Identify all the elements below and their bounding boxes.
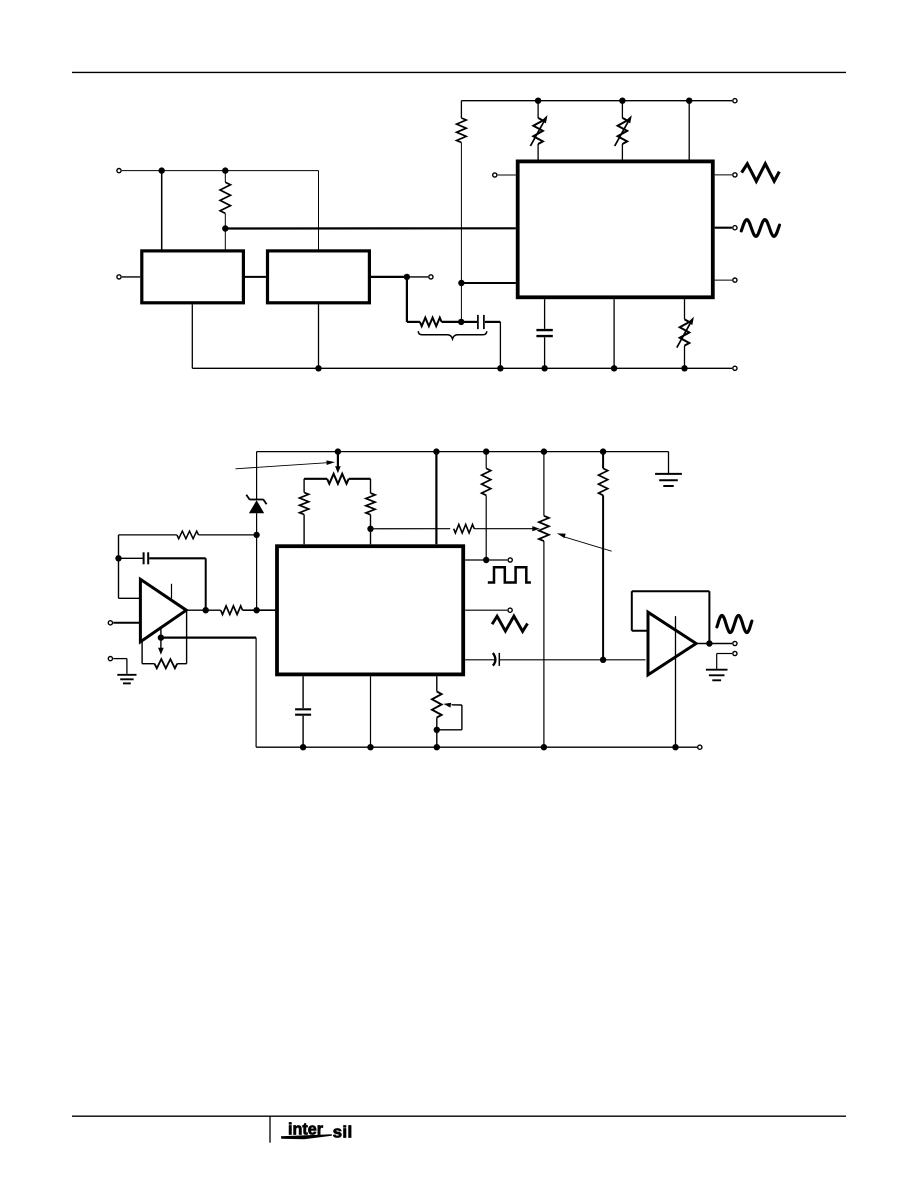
wire rail to D1: [256, 452, 258, 499]
capacitor C4 (coupling): [493, 653, 496, 666]
op IC1 ICL8038 waveform generator: [518, 161, 713, 297]
node J1: [159, 167, 165, 173]
wire P1 right lead: [349, 478, 371, 480]
footer tick: [269, 1116, 271, 1143]
variable resistor VR2: [618, 118, 628, 144]
ground (A2 output): [706, 669, 728, 671]
node J6: [458, 280, 464, 286]
wire term to IC1: [498, 174, 516, 176]
node rail-VR1: [535, 98, 541, 104]
op IC2 ICL8038: [277, 546, 463, 674]
node rail-pin11: [611, 365, 617, 371]
resistor R1: [220, 182, 230, 213]
pot P3 body: [155, 659, 178, 668]
wire J6 down to J5: [460, 283, 462, 322]
wire rail to IC1 pin 6: [688, 101, 690, 160]
square waveform symbol: [488, 567, 531, 582]
node J11: [203, 607, 209, 613]
wire VR3 to rail: [684, 346, 686, 369]
wire R7 to J8: [199, 534, 257, 536]
wire A1 output: [186, 609, 220, 611]
terminal triangle out: [733, 173, 737, 177]
node J4: [404, 274, 410, 280]
wire to R2: [407, 321, 420, 323]
variable resistor VR4 (rheostat): [432, 692, 442, 718]
intersil logo: [281, 1121, 353, 1142]
top rail circuit 2: [257, 451, 669, 453]
wire J3 to block A top: [224, 229, 226, 250]
wire J6 to IC1 pin: [461, 282, 515, 284]
node rail-pin: [686, 98, 692, 104]
terminal IN1: [117, 169, 121, 173]
node rail2-pin: [433, 448, 439, 454]
wire block A to block B: [245, 276, 266, 278]
wire P1 left lead: [304, 478, 327, 480]
wire C3 to corner: [149, 557, 206, 559]
pot P2 wiper arrowhead: [532, 526, 540, 531]
node J9: [253, 607, 259, 613]
wire P2 to bottom rail 2: [543, 541, 545, 747]
wire C1 to corner: [485, 321, 501, 323]
wire C2 to bottom rail: [544, 337, 546, 368]
bottom rail circuit 1: [192, 367, 732, 369]
wire down to block B top: [318, 171, 320, 250]
wire R3 down to J6: [460, 143, 462, 284]
triangle waveform symbol 2: [492, 616, 527, 631]
terminal square out 2: [508, 558, 512, 562]
terminal gnd out: [733, 651, 737, 655]
wire P3 left lead: [142, 663, 154, 665]
op-amp A1: [140, 579, 186, 642]
wire C3 down to output node: [205, 558, 207, 610]
node rail2-P2: [541, 448, 547, 454]
node rail-VR2: [619, 98, 625, 104]
terminal V-: [733, 366, 737, 370]
node J2: [222, 167, 228, 173]
pot P3 wiper arrowhead: [158, 648, 164, 655]
ground (A1): [117, 674, 136, 676]
node rail-blockB: [315, 365, 321, 371]
ground (top right): [668, 452, 670, 473]
annotation arrow (points at pot P1 wiper): [236, 463, 328, 469]
wire R1 to J3: [224, 213, 226, 228]
wire IC2 triangle out: [465, 609, 507, 611]
node J10: [115, 555, 121, 561]
wire IC2 square out: [465, 559, 483, 561]
sine waveform symbol 2: [717, 615, 752, 632]
wire down to bottom rail: [499, 322, 501, 368]
wire IC1 triangle out: [715, 174, 732, 176]
wire P1 to R4: [303, 479, 305, 493]
wire IC1 square out: [715, 279, 732, 281]
wire to R1: [224, 171, 226, 183]
node rail2-VR4: [434, 744, 440, 750]
node rail2-pin: [367, 744, 373, 750]
svg-text:sil: sil: [333, 1122, 353, 1141]
wire IC1 pin10 to C2: [544, 299, 546, 329]
wire J4 down: [406, 277, 408, 322]
wire to demod out terminal: [410, 276, 428, 278]
wire rail to IC2 top pin (thick): [435, 452, 437, 545]
wire J8 down to J9: [256, 535, 258, 610]
node rail-C2: [541, 365, 547, 371]
variable resistor VR3: [680, 319, 690, 345]
node J15: [706, 640, 712, 646]
terminal gnd ref: [108, 657, 112, 661]
wire IC2 pin to rail: [370, 676, 372, 747]
wire R10 to J14: [602, 495, 604, 660]
wire down to bottom rail 2: [255, 638, 257, 748]
wire J7 to IC2: [370, 529, 372, 545]
footer rule: [72, 1115, 846, 1117]
op-amp A1 power tick: [171, 584, 173, 599]
terminal V- 2: [698, 745, 702, 749]
node J12: [158, 634, 164, 640]
wire R6 to P2 wiper arrow: [474, 528, 533, 530]
node J14: [600, 657, 606, 663]
resistor R8: [221, 606, 243, 615]
resistor R4: [300, 493, 309, 515]
brace (RC filter label bracket): [418, 331, 487, 339]
node rail2-RB: [600, 448, 606, 454]
wire IC2 to C5: [302, 676, 304, 708]
op-amp A2 power tick / wire to rail: [675, 616, 677, 747]
wire J13 to terminal: [489, 559, 507, 561]
wire J3 to IC1 pin (thick): [225, 227, 516, 229]
terminal V+: [733, 99, 737, 103]
wire J1 to block A: [161, 171, 163, 250]
wire rail to VR1: [537, 101, 539, 118]
wire rail to P2: [543, 452, 545, 516]
wire P3 left up: [141, 642, 143, 664]
resistor R10: [599, 468, 608, 495]
node rail2-C5: [300, 744, 306, 750]
op-amp A2 feedback loop: [632, 630, 648, 632]
wire IC1 sine out: [715, 227, 732, 229]
capacitor C5: [295, 708, 311, 710]
wire A2 output: [696, 643, 732, 645]
node rail2-RA: [483, 448, 489, 454]
wire block A bottom to rail: [191, 304, 193, 368]
terminal sine out: [733, 226, 737, 230]
wire R5 to J7: [370, 515, 372, 529]
capacitor C2: [536, 329, 552, 331]
terminal A1 +input: [108, 621, 112, 625]
terminal FM sweep input: [493, 173, 497, 177]
wire C4 to buffer: [499, 659, 645, 661]
wire block B output: [371, 276, 404, 278]
wire IC1 pin12 to VR3: [684, 299, 686, 319]
block B (amplifier): [268, 251, 370, 303]
wire to ground: [113, 658, 127, 660]
wire C5 to rail: [302, 716, 304, 747]
wire +input: [113, 622, 139, 624]
wire D1 to J8: [256, 513, 258, 535]
terminal square out: [733, 278, 737, 282]
wire IC2 to VR4: [436, 676, 438, 691]
wire J12 right (thick): [161, 636, 256, 638]
op-amp A2: [648, 612, 696, 675]
resistor R2: [420, 318, 442, 327]
wire hypotenuse to P3 wiper: [160, 628, 162, 649]
wire block B bottom to rail: [318, 304, 320, 368]
sine waveform symbol: [741, 220, 779, 237]
terminal IN2: [117, 275, 121, 279]
pot P1 body: [327, 474, 349, 484]
capacitor C1: [477, 315, 479, 329]
node J7: [367, 526, 373, 532]
wire R2 to J5: [442, 321, 462, 323]
wire top-left: [122, 170, 319, 172]
wire VR4 to rail: [436, 718, 438, 748]
wire terminal to ground: [717, 653, 732, 655]
wire feedback left down: [118, 535, 120, 598]
top page rule: [72, 71, 846, 73]
terminal triangle out 2: [508, 608, 512, 612]
zener diode D1: [249, 499, 263, 501]
wire IN2 to block A: [122, 276, 140, 278]
wire R8 to IC2: [243, 609, 276, 611]
wire P1 to R5: [370, 479, 372, 493]
wire IC1 pin11 to rail: [613, 299, 615, 368]
wire inverting input: [119, 597, 140, 599]
wire P3 right lead: [177, 663, 186, 665]
resistor R3: [457, 118, 467, 143]
node rail-C1: [497, 365, 503, 371]
node rail-VR3: [681, 365, 687, 371]
wire rail to R10: [602, 452, 604, 469]
wire R4 to IC2: [303, 515, 305, 545]
resistor R7 (feedback): [177, 531, 199, 539]
terminal DEMOD OUT: [429, 275, 433, 279]
wire feedback top: [119, 534, 177, 536]
terminal sine out 2: [733, 641, 737, 645]
wire VR2 to IC1: [621, 144, 623, 160]
wire IC2 sine out: [465, 659, 496, 661]
node rail2-wiper: [335, 448, 341, 454]
node J16: [434, 727, 440, 733]
node rail2-A2: [672, 744, 678, 750]
top supply rail: [461, 100, 732, 102]
node J5: [458, 319, 464, 325]
node J13: [483, 557, 489, 563]
pot P2 body: [539, 516, 549, 541]
wire R9 to J13: [485, 495, 487, 560]
resistor R5: [366, 493, 375, 515]
wire J7 to R6: [371, 528, 451, 530]
annotation arrow (points at pot P2): [563, 537, 612, 552]
wire VR1 to IC1: [537, 144, 539, 160]
wire J5 to C1: [461, 321, 477, 323]
pot P1 wiper arrow: [337, 452, 339, 467]
block A (phase detector): [142, 251, 244, 303]
resistor R6: [454, 524, 475, 533]
bottom rail circuit 2: [256, 746, 697, 748]
node rail2-P2: [541, 744, 547, 750]
wire top rail to R3: [460, 101, 462, 118]
wire P3 right up to output: [186, 610, 188, 664]
node J8: [253, 532, 259, 538]
node J3: [222, 225, 228, 231]
resistor R9: [482, 468, 491, 495]
wire rail to R9: [485, 452, 487, 469]
wire rail to VR2: [621, 101, 623, 118]
capacitor C3 (feedback): [119, 557, 143, 559]
triangle waveform symbol: [742, 164, 780, 181]
variable resistor VR1: [533, 118, 543, 144]
